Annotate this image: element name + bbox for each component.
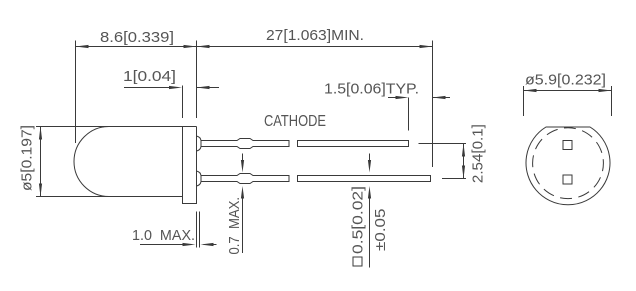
dim text 8.6[0.339]: [100, 29, 174, 46]
dim dia5.9 right extension line: [611, 86, 613, 116]
LED flange: [183, 127, 197, 204]
LED body dome: [74, 127, 109, 197]
arrowhead 27 left: [197, 45, 210, 48]
dim 1 leader line: [124, 87, 170, 89]
dim 27 line: [197, 46, 433, 48]
arrowhead 27 right: [420, 45, 433, 48]
dim 0.5 sq upper arrow shaft: [369, 154, 371, 162]
arrowhead 2.54 bottom: [462, 166, 465, 179]
top view cathode lead square: [563, 141, 572, 150]
svg-text:1.0 MAX.: 1.0 MAX.: [132, 227, 195, 244]
dim 8.6 left extension line: [75, 41, 77, 144]
svg-text:27[1.063]MIN.: 27[1.063]MIN.: [266, 27, 364, 44]
dim text 27[1.063]MIN.: [266, 27, 364, 44]
arrowhead 2.54 top: [462, 144, 465, 157]
label CATHODE: [264, 113, 326, 130]
LED body top edge (with dia5 top extension line): [36, 126, 197, 128]
dim 0.5 sq lower arrow shaft: [369, 197, 371, 268]
svg-text:0.5[0.02]: 0.5[0.02]: [350, 186, 367, 254]
dim 2.54 bottom extension line: [442, 178, 466, 180]
svg-text:CATHODE: CATHODE: [264, 113, 326, 130]
arrowhead 0.5 down: [368, 160, 371, 173]
arrowhead 8.6 left: [76, 45, 89, 48]
arrowhead 0.5 up: [368, 186, 371, 199]
svg-text:±0.05: ±0.05: [372, 209, 389, 252]
dim 1.0 MAX extension line b: [199, 212, 201, 248]
svg-text:2.54[0.1]: 2.54[0.1]: [470, 124, 487, 183]
dim text dia5[0.197] rotated: [19, 125, 36, 191]
square symbol for 0.5 dim text: [353, 257, 362, 266]
dim text dia5.9[0.232]: [525, 72, 606, 89]
arrowhead 1.5 left (points right): [396, 96, 409, 99]
dim 1 right arrow tail: [197, 87, 220, 89]
dim 1.5 extension line (cathode lead end): [408, 98, 410, 131]
svg-text:1[0.04]: 1[0.04]: [123, 68, 176, 85]
arrowhead dia5.9 right: [599, 89, 612, 92]
arrowhead 1 right (points left at flange right): [197, 86, 210, 89]
dim 27 right extension line: [432, 41, 434, 168]
shared extension line at flange right: [196, 41, 198, 119]
dim 2.54 top extension line: [419, 143, 467, 145]
dim 0.7 MAX upper arrow shaft: [242, 154, 244, 163]
dim 8.6 line: [76, 46, 197, 48]
svg-text:ø5.9[0.232]: ø5.9[0.232]: [525, 72, 606, 89]
svg-text:1.5[0.06]TYP.: 1.5[0.06]TYP.: [324, 81, 419, 98]
arrowhead dia5.9 left: [524, 89, 537, 92]
svg-text:8.6[0.339]: 8.6[0.339]: [100, 29, 174, 46]
arrowhead 1.0 MAX left (points right): [183, 243, 196, 246]
dim dia5 line: [40, 127, 42, 197]
dim dia5.9 line: [524, 90, 612, 92]
arrowhead dia5 bottom: [39, 184, 42, 197]
top view outer circle with flat: [526, 127, 610, 205]
dim 0.7 MAX lower arrow shaft: [242, 196, 244, 253]
arrowhead 0.7 down: [241, 160, 244, 173]
cathode lead (top, with crimp bump and break): [197, 136, 409, 151]
anode lead (bottom, with crimp bump and break): [197, 171, 431, 186]
arrowhead 0.7 up: [241, 186, 244, 199]
dim text +/-0.05 rotated: [372, 209, 389, 252]
dim 1.5 leader line: [388, 97, 396, 99]
dim text 0.5[0.02] rotated: [350, 186, 367, 254]
arrowhead 1.5 right (points left): [433, 96, 446, 99]
dim 1.0 MAX extension line a: [196, 212, 198, 248]
dim 1.0 MAX leader line: [140, 244, 183, 246]
dim dia5.9 left extension line: [523, 86, 525, 116]
svg-text:ø5[0.197]: ø5[0.197]: [19, 125, 36, 191]
top view dashed circle: [533, 128, 604, 199]
top view anode lead square: [563, 175, 572, 184]
arrowhead 1.0 MAX right (points left): [201, 243, 214, 246]
dim text 2.54[0.1] rotated: [470, 124, 487, 183]
LED body bottom edge (with dia5 bottom extension line): [36, 196, 183, 198]
arrowhead dia5 top: [39, 127, 42, 140]
dim 2.54 line: [463, 144, 465, 179]
dim text 0.7 MAX. rotated: [226, 197, 243, 255]
dim text 1[0.04]: [123, 68, 176, 85]
dim 1 extension line (flange left): [182, 86, 184, 119]
arrowhead 1 left (points right at flange left): [169, 86, 182, 89]
dim 1.5 right arrow tail: [433, 97, 451, 99]
dim 1.0 MAX right arrow tail: [204, 244, 217, 246]
dim text 1.0 MAX.: [132, 227, 195, 244]
svg-text:0.7 MAX.: 0.7 MAX.: [226, 197, 243, 255]
arrowhead 8.6 right: [184, 45, 197, 48]
dim text 1.5[0.06]TYP.: [324, 81, 419, 98]
